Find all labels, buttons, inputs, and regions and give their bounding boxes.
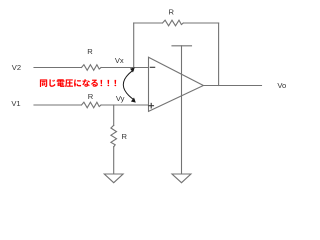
label R4 value R <box>168 7 174 16</box>
wire R1 to op-amp inverting input (node Vx) <box>101 67 149 69</box>
label R3 value R <box>121 132 127 141</box>
wire V2 to R1 <box>34 67 82 69</box>
label node Vy <box>116 94 125 103</box>
resistor R3 (Vy to ground) <box>111 125 117 147</box>
label R2 value R <box>88 92 94 101</box>
label R1 value R <box>87 47 93 56</box>
svg-text:R: R <box>168 7 174 16</box>
svg-text:R: R <box>88 92 94 101</box>
ground (right) <box>172 174 191 183</box>
wire feedback top left <box>134 22 163 24</box>
ground (left) <box>104 174 123 183</box>
svg-text:V2: V2 <box>12 63 21 72</box>
wire R3 to ground <box>113 147 115 174</box>
wire node Vy down to R3 <box>113 105 115 125</box>
svg-text:Vx: Vx <box>115 56 124 65</box>
svg-text:R: R <box>87 47 93 56</box>
resistor R1 (V2 input) <box>82 65 102 71</box>
wire feedback left vertical (node Vx up) <box>133 23 135 68</box>
resistor R4 (feedback) <box>163 20 184 26</box>
power rail bar (V+) <box>172 45 192 47</box>
wire feedback top right <box>183 22 218 24</box>
wire power rail down through op-amp to ground <box>181 46 183 174</box>
svg-text:Vy: Vy <box>116 94 125 103</box>
op-amp U1 <box>149 57 204 111</box>
svg-text:V1: V1 <box>11 99 20 108</box>
wire op-amp output to Vo <box>203 85 261 87</box>
label node Vx <box>115 56 124 65</box>
svg-text:R: R <box>121 132 127 141</box>
annotation text (red): 同じ電圧になる！！！ <box>40 79 116 87</box>
label V1 <box>11 99 20 108</box>
wire feedback right vertical (to output) <box>218 23 220 86</box>
label Vo <box>277 81 286 90</box>
svg-text:Vo: Vo <box>277 81 286 90</box>
wire R2 to op-amp non-inverting input (node Vy) <box>101 104 149 106</box>
resistor R2 (V1 input) <box>82 102 102 108</box>
wire V1 to R2 <box>34 104 82 106</box>
annotation curved double arrow between node Vx and node Vy <box>123 67 135 102</box>
label V2 <box>12 63 21 72</box>
